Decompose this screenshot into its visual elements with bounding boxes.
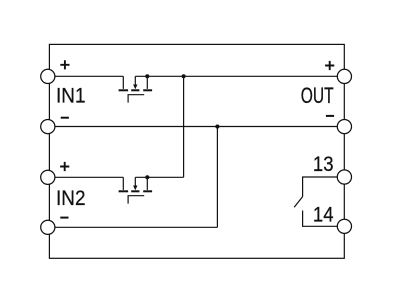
label IN1 minus [61,117,69,119]
svg-text:13: 13 [313,153,334,176]
Q1 drain lead [146,76,148,89]
wire contact to terminal 13 [303,177,338,197]
wire node B vertical (OUT+ bus to Q2 drain) [183,76,185,177]
terminal OUT- [337,120,351,134]
Q2 drain lead [146,177,148,190]
terminal IN2- [41,220,55,234]
wire IN2- run [55,226,217,228]
transistor Q2 [119,177,153,203]
wire Q1 drain to OUT+ [135,75,337,77]
wire contact to terminal 14 [303,211,338,227]
label OUT minus [326,115,334,117]
label OUT plus [325,61,334,70]
wire IN1+ to Q1 source [55,75,123,77]
Q2 gate line [128,196,144,204]
Q1 source bar [119,89,129,91]
Q1 bulk bar [131,89,139,91]
wire node C vertical (IN1- bus to IN2- bus) [216,127,218,228]
Q2 bulk bar [131,190,139,192]
label IN1 plus [60,60,69,69]
svg-text:14: 14 [313,203,334,226]
contact blade [294,197,302,208]
Q2 drain bar [143,190,152,192]
label IN2 plus [60,162,69,171]
terminal 13 [337,170,351,184]
Q1 bulk arrow [133,85,137,90]
signal contact 13-14 [294,177,337,226]
terminal IN1- [41,120,55,134]
terminal OUT+ [337,69,351,83]
Q2 bulk lead [134,177,136,186]
wire IN1- to OUT- [55,126,337,128]
Q1 bulk lead [134,76,136,85]
svg-text:IN2: IN2 [56,186,86,210]
label IN2 minus [60,217,68,219]
junction node Q2 drain [145,175,149,179]
svg-text:IN1: IN1 [56,83,86,107]
wire IN2+ to Q2 source [55,176,123,178]
junction node C [215,124,219,128]
transistor Q1 [119,76,153,102]
Q2 bulk arrow [133,186,137,191]
terminal IN2+ [41,170,55,184]
module outline box [49,44,344,258]
junction node B [182,74,186,78]
junction node Q1 drain [145,74,149,78]
terminal IN1+ [41,69,55,83]
terminal 14 [337,219,351,233]
svg-text:OUT: OUT [301,83,334,108]
Q1 source lead [122,76,124,89]
wire Q2 drain to node B [135,176,183,178]
Q1 drain bar [143,89,152,91]
Q2 source lead [122,177,124,190]
Q2 source bar [119,190,129,192]
Q1 gate line [128,95,144,103]
